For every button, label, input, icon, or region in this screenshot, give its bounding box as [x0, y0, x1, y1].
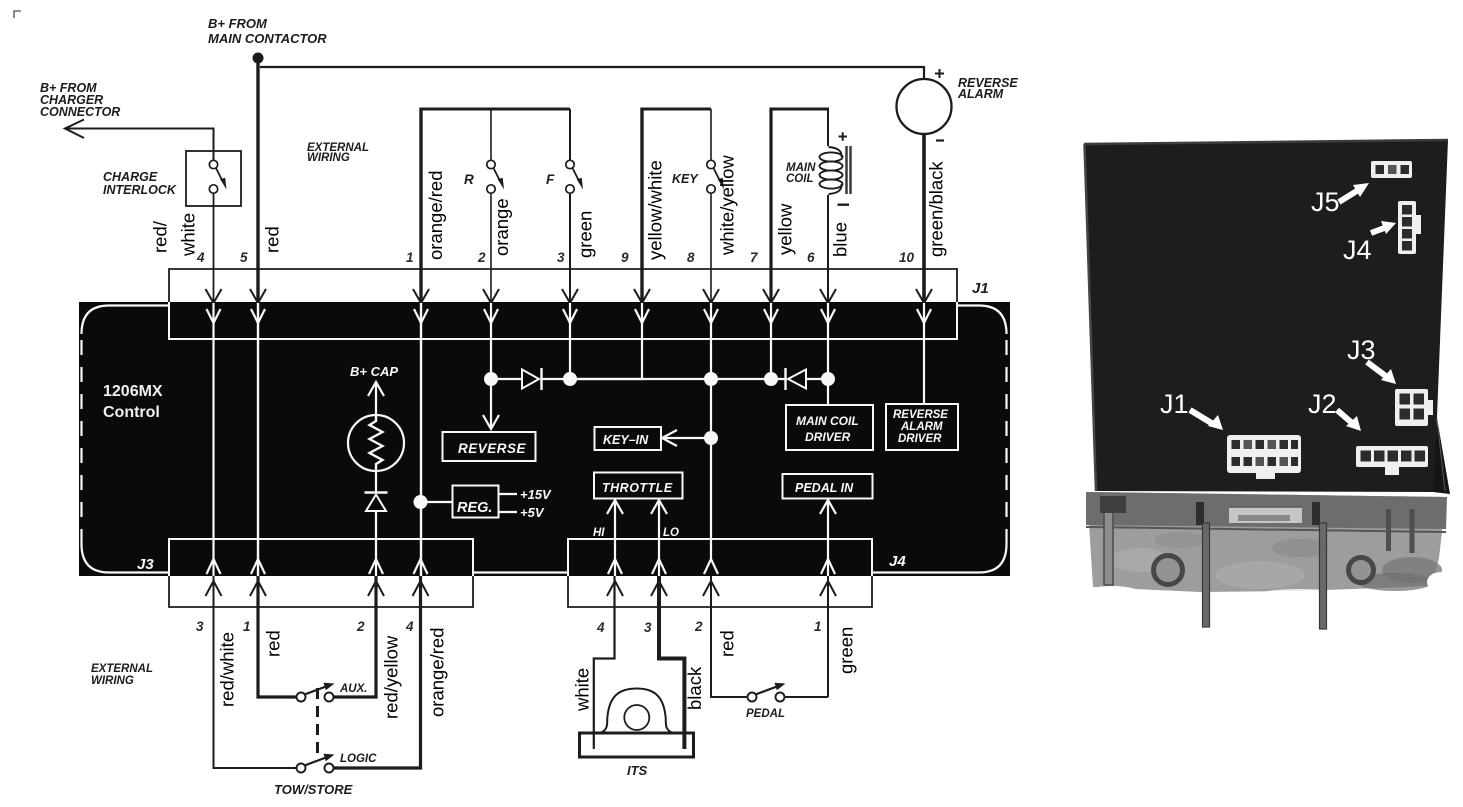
svg-text:ITS: ITS — [627, 763, 648, 778]
wire bar over KEY switch — [642, 108, 711, 111]
svg-text:orange/red: orange/red — [425, 171, 446, 260]
svg-text:blue: blue — [830, 222, 851, 257]
control box white border top-right arc — [957, 306, 1007, 335]
controller photo: small pin right B — [1410, 509, 1415, 553]
controller photo: spec label plate — [1229, 507, 1302, 523]
svg-text:Control: Control — [103, 404, 160, 421]
1206MX control box body — [79, 302, 1010, 576]
svg-text:J3: J3 — [137, 556, 154, 573]
wire inside pin2 column to reverse logic — [490, 303, 492, 379]
J4 pin 3 white arrowhead — [652, 559, 666, 574]
corner registration mark — [14, 11, 21, 18]
connector J1 on photo — [1227, 435, 1301, 473]
svg-text:6: 6 — [807, 250, 815, 265]
J1 pin 1 white arrowhead — [414, 309, 428, 323]
controller photo: base ragged bottom edge — [1086, 586, 1138, 598]
controller photo: base mottling — [1110, 548, 1170, 572]
main coil winding — [820, 152, 843, 161]
svg-text:red: red — [262, 226, 283, 253]
J1 pin 1 black arrowhead — [413, 289, 429, 303]
J1 pin 9 white arrowhead — [635, 309, 649, 323]
J1 pin 4 black arrowhead — [206, 289, 222, 303]
box PEDAL IN — [783, 474, 873, 499]
J3 pin 1 white arrowhead — [251, 559, 265, 574]
wire R switch top / bottom (orange) — [490, 109, 492, 303]
wire diode D3 to J3 pin 2 — [375, 510, 377, 576]
wire REVERSE arrow — [490, 379, 492, 427]
J1 pin 6 black arrowhead — [820, 289, 836, 303]
svg-text:black: black — [684, 666, 705, 710]
svg-text:white/yellow: white/yellow — [717, 155, 738, 256]
wire inside pin1 column to J3 pin 4 — [420, 303, 422, 576]
wire main coil bottom to J1 pin 6 — [827, 195, 829, 303]
svg-text:J4: J4 — [1343, 235, 1372, 265]
J4 connector strip lower (black outline) — [568, 576, 872, 607]
wire inside pin6 column to main coil driver — [827, 303, 829, 405]
wire J3 pin 4 from logic switch — [334, 576, 421, 768]
controller photo: base upper dark band — [1086, 492, 1447, 529]
J4 pin 3 black arrowhead — [651, 581, 667, 596]
wire pedal in — [820, 500, 836, 576]
svg-text:3: 3 — [196, 619, 204, 634]
svg-text:1206MX: 1206MX — [103, 383, 163, 400]
photo arrow J4 — [1371, 227, 1387, 233]
J3 pin 1 black arrowhead — [250, 581, 266, 596]
wire reverse alarm to J1 pin 10 (green/black) — [922, 134, 926, 303]
J3 pin 4 white arrowhead — [414, 559, 428, 574]
controller photo: right lower side facet — [1433, 418, 1450, 494]
reverse alarm (horn) — [897, 79, 952, 134]
svg-text:B+ CAP: B+ CAP — [350, 364, 398, 379]
node junction dot pin2/diode row — [484, 372, 498, 386]
wire inside pin5 column (red through box) — [257, 303, 259, 576]
svg-text:orange/red: orange/red — [427, 628, 448, 717]
node junction dot pin7/diode row — [764, 372, 778, 386]
ITS pot shaft circle — [624, 705, 649, 730]
wire junction to REG box — [421, 501, 453, 503]
J4 pin 2 black arrowhead — [703, 581, 719, 596]
controller photo: left edge highlight — [1085, 144, 1097, 491]
svg-text:EXTERNAL: EXTERNAL — [91, 663, 153, 675]
charge interlock box — [186, 151, 241, 206]
svg-text:B+ FROM: B+ FROM — [208, 16, 268, 31]
tow/store logic blade — [305, 758, 327, 766]
wire J3 pin 3 to tow/store logic — [214, 576, 297, 768]
tow/store logic contacts — [297, 764, 306, 773]
controller photo: terminal pin left — [1203, 523, 1210, 627]
resistor (precharge) circle — [348, 415, 404, 471]
controller photo: left bracket on base — [1104, 500, 1113, 585]
svg-text:DRIVER: DRIVER — [805, 430, 851, 444]
control box white border top-left arc — [82, 306, 170, 335]
J4 pin 2 white arrowhead — [704, 559, 718, 574]
controller photo: right mounting boss — [1349, 558, 1374, 583]
controller photo: top edge highlight — [1084, 140, 1448, 144]
main coil core lines — [847, 146, 851, 194]
node junction dot pin3/diode row — [563, 372, 577, 386]
J3 pin 2 black arrowhead — [368, 581, 384, 596]
svg-text:green: green — [836, 627, 857, 674]
node junction dot regulator — [414, 495, 428, 509]
wire B+ down to J1 pin 5 — [256, 60, 259, 303]
wire key-in arrow — [662, 430, 711, 446]
J1 pin 10 white arrowhead — [917, 309, 931, 323]
wire to charger connector with arrowhead — [65, 120, 214, 161]
svg-text:3: 3 — [557, 250, 565, 265]
svg-text:4: 4 — [405, 619, 414, 634]
svg-text:REVERSE: REVERSE — [893, 409, 948, 421]
box MAIN COIL DRIVER — [786, 405, 873, 450]
wire inside pin9 column down to diode row — [570, 303, 642, 379]
svg-text:DRIVER: DRIVER — [898, 433, 942, 445]
wire circle to diode D3 — [375, 469, 377, 493]
wire bar over R and F switches — [421, 108, 570, 111]
node junction dot pin8/diode row — [704, 372, 718, 386]
J3 connector strip lower (black outline) — [169, 576, 473, 607]
svg-text:red/white: red/white — [217, 632, 238, 707]
svg-text:ALARM: ALARM — [900, 421, 943, 433]
wire diode row right segment — [806, 378, 828, 380]
ITS pot body dome — [600, 689, 673, 734]
pedal switch blade — [756, 687, 778, 695]
connector J2 on photo — [1356, 446, 1428, 467]
wire diode row middle segment — [542, 378, 785, 380]
svg-text:10: 10 — [899, 250, 915, 265]
svg-text:LOGIC: LOGIC — [340, 753, 377, 765]
main coil plus terminal — [839, 132, 848, 140]
connector J3 on photo — [1395, 389, 1428, 426]
wire J3 pin 2 from aux switch — [334, 576, 376, 697]
svg-text:1: 1 — [243, 619, 251, 634]
J1 pin 6 white arrowhead — [821, 309, 835, 323]
svg-text:white: white — [572, 668, 593, 712]
svg-text:COIL: COIL — [786, 173, 813, 185]
J4 pin 1 black arrowhead — [820, 581, 836, 596]
wire +5V output — [499, 511, 518, 513]
J3 pin 3 black arrowhead — [206, 581, 222, 596]
svg-text:KEY: KEY — [672, 172, 699, 186]
svg-text:2: 2 — [477, 250, 486, 265]
control box white border bottom-left arc — [82, 544, 170, 573]
svg-text:CONNECTOR: CONNECTOR — [40, 105, 120, 119]
J4 pin 4 white arrowhead — [608, 559, 622, 574]
svg-text:white: white — [178, 213, 199, 257]
svg-text:red: red — [717, 630, 738, 657]
control box white border left dashed edge — [80, 340, 82, 544]
wire J4 pin 4 to ITS (white) — [594, 576, 615, 749]
photo arrow J1 — [1190, 410, 1213, 424]
svg-text:3: 3 — [644, 620, 652, 635]
box REVERSE ALARM DRIVER — [886, 404, 958, 450]
svg-text:9: 9 — [621, 250, 629, 265]
svg-text:R: R — [464, 172, 474, 187]
wire J1 pin 1 (orange/red) — [419, 108, 422, 304]
J1 pin 10 black arrowhead — [916, 289, 932, 303]
controller photo: base crevice line — [1086, 527, 1446, 532]
wire pedal switch to J4 pin 1 (green) — [785, 576, 829, 697]
wire J4 pin 3 to ITS (black) — [657, 576, 684, 749]
charge interlock switch blade — [216, 168, 223, 181]
wire +15V output — [499, 493, 518, 495]
svg-text:yellow: yellow — [775, 203, 796, 255]
switch R blade — [494, 168, 501, 181]
photo arrow J5 — [1339, 189, 1360, 202]
wire throttle HI — [607, 500, 623, 576]
node junction dot pin6/diode row — [821, 372, 835, 386]
svg-text:1: 1 — [814, 619, 822, 634]
wire B+ cap up arrow — [368, 382, 384, 415]
svg-text:J1: J1 — [1160, 389, 1189, 419]
charge interlock switch contacts — [209, 160, 217, 168]
svg-text:PEDAL IN: PEDAL IN — [795, 481, 854, 495]
J1 connector strip lower (white outline) — [169, 302, 957, 339]
switch KEY contacts — [707, 160, 715, 168]
reverse alarm minus terminal — [936, 139, 944, 141]
main coil minus terminal — [838, 203, 850, 205]
wire J3 pin 1 to tow/store aux — [258, 576, 296, 697]
svg-text:green/black: green/black — [926, 161, 947, 257]
svg-text:INTERLOCK: INTERLOCK — [103, 183, 177, 197]
svg-text:KEY–IN: KEY–IN — [603, 433, 649, 447]
svg-text:J3: J3 — [1347, 335, 1376, 365]
J3 pin 3 white arrowhead — [207, 559, 221, 574]
wire F switch top / bottom (green) — [569, 109, 571, 303]
svg-text:+15V: +15V — [520, 487, 552, 502]
wire J1 pin 9 (yellow/white) — [640, 108, 643, 304]
wire bar over main coil — [771, 108, 828, 111]
controller photo: metal base — [1087, 492, 1446, 592]
J1 pin 8 black arrowhead — [703, 289, 719, 303]
box KEY-IN — [595, 427, 662, 450]
diode D1 (reverse logic) — [522, 370, 539, 389]
svg-text:ALARM: ALARM — [957, 87, 1004, 101]
J1 pin 5 white arrowhead — [251, 309, 265, 323]
svg-text:PEDAL: PEDAL — [746, 708, 785, 720]
svg-text:CHARGE: CHARGE — [103, 170, 158, 184]
J3 connector strip upper (white outline) — [169, 539, 473, 576]
svg-text:REG.: REG. — [457, 500, 492, 516]
switch F contacts — [566, 160, 574, 168]
svg-text:+5V: +5V — [520, 505, 545, 520]
wire throttle LO — [651, 500, 667, 576]
J3 pin 4 black arrowhead — [413, 581, 429, 596]
connector J5 on photo — [1371, 161, 1412, 178]
photo arrow J2 — [1337, 410, 1352, 423]
svg-text:red: red — [263, 630, 284, 657]
svg-text:THROTTLE: THROTTLE — [602, 481, 673, 495]
svg-text:TOW/STORE: TOW/STORE — [274, 782, 353, 797]
svg-text:5: 5 — [240, 250, 248, 265]
J3 pin 2 white arrowhead — [369, 559, 383, 574]
wire inside pin7 column — [770, 303, 772, 379]
tow/store gang dashed link — [316, 688, 319, 757]
svg-text:MAIN COIL: MAIN COIL — [796, 414, 859, 428]
svg-text:red/: red/ — [150, 220, 171, 253]
J1 pin 7 white arrowhead — [764, 309, 778, 323]
svg-text:8: 8 — [687, 250, 695, 265]
J1 pin 8 white arrowhead — [704, 309, 718, 323]
svg-text:LO: LO — [663, 527, 679, 539]
node junction dot key-in — [704, 431, 718, 445]
J1 pin 3 black arrowhead — [562, 289, 578, 303]
connector J4 on photo — [1398, 201, 1416, 254]
svg-text:green: green — [575, 211, 596, 258]
diode D3 (to J3 pin 2) — [365, 491, 388, 493]
box REVERSE — [443, 432, 536, 461]
wire inside pin8 column (key input) — [710, 303, 712, 559]
svg-text:REVERSE: REVERSE — [458, 441, 527, 456]
svg-text:J4: J4 — [889, 553, 906, 570]
svg-text:WIRING: WIRING — [307, 152, 350, 164]
J1 connector strip upper (black outline) — [169, 269, 957, 302]
wire inside pin4 column (red/white through box) — [212, 303, 214, 576]
wire diode row left segment — [491, 378, 522, 380]
control box white border bottom middle segment — [473, 571, 568, 573]
svg-text:red/yellow: red/yellow — [381, 635, 402, 719]
wire B+ across top to reverse alarm — [260, 67, 924, 80]
svg-text:4: 4 — [196, 250, 205, 265]
wire KEY switch top / bottom (white/yellow) — [710, 109, 712, 303]
box THROTTLE — [594, 473, 683, 499]
svg-text:J2: J2 — [1308, 389, 1337, 419]
svg-text:yellow/white: yellow/white — [645, 160, 666, 260]
svg-text:J1: J1 — [972, 280, 989, 297]
J1 pin 3 white arrowhead — [563, 309, 577, 323]
svg-text:1: 1 — [406, 250, 414, 265]
svg-text:4: 4 — [596, 620, 605, 635]
controller photo: small pin right A — [1386, 509, 1391, 551]
svg-text:J5: J5 — [1311, 187, 1340, 217]
tow/store aux blade — [305, 687, 327, 695]
box REG. — [453, 486, 499, 518]
J1 pin 4 white arrowhead — [207, 309, 221, 323]
controller photo: top face — [1084, 140, 1448, 492]
wire charge interlock to J1 pin 4 (red/white) — [213, 193, 215, 303]
diode D2 (main coil driver) — [784, 368, 786, 390]
J1 pin 2 black arrowhead — [483, 289, 499, 303]
ITS base plate — [580, 733, 694, 757]
controller photo: terminal stub right — [1312, 502, 1320, 525]
svg-text:2: 2 — [694, 619, 703, 634]
svg-text:WIRING: WIRING — [91, 675, 134, 687]
svg-text:F: F — [546, 172, 555, 187]
svg-text:orange: orange — [491, 198, 512, 256]
node B+ main contactor junction dot — [253, 53, 264, 64]
switch F blade — [573, 168, 580, 181]
control box white border bottom-right arc — [872, 544, 1007, 573]
tow/store aux contacts — [297, 693, 306, 702]
switch R contacts — [487, 160, 495, 168]
wire J4 pin 2 to pedal switch — [711, 576, 747, 697]
switch KEY blade — [714, 168, 721, 181]
svg-text:AUX.: AUX. — [339, 683, 367, 695]
svg-text:MAIN CONTACTOR: MAIN CONTACTOR — [208, 31, 327, 46]
controller photo: terminal pin right — [1320, 523, 1327, 629]
controller photo: left mounting boss — [1154, 556, 1183, 585]
reverse alarm plus terminal — [935, 69, 944, 78]
controller photo: terminal stub left — [1196, 502, 1204, 525]
J1 pin 9 black arrowhead — [634, 289, 650, 303]
svg-text:2: 2 — [356, 619, 365, 634]
wire J1 pin 7 (yellow) — [769, 108, 772, 304]
J4 pin 1 white arrowhead — [821, 559, 835, 574]
svg-text:HI: HI — [593, 527, 605, 539]
control box white border right dashed edge — [1005, 340, 1007, 544]
J1 pin 5 black arrowhead — [250, 289, 266, 303]
J1 pin 7 black arrowhead — [763, 289, 779, 303]
wire inside pin10 column to reverse alarm driver — [923, 303, 925, 404]
J1 pin 2 white arrowhead — [484, 309, 498, 323]
J4 connector strip upper (white outline) — [568, 539, 872, 576]
pedal switch contacts — [748, 693, 757, 702]
wire main coil top (blue) — [827, 108, 829, 147]
wire inside pin3 column — [569, 303, 571, 379]
J4 pin 4 black arrowhead — [607, 581, 623, 596]
photo arrow J3 — [1367, 362, 1387, 377]
resistor zigzag — [370, 416, 383, 469]
